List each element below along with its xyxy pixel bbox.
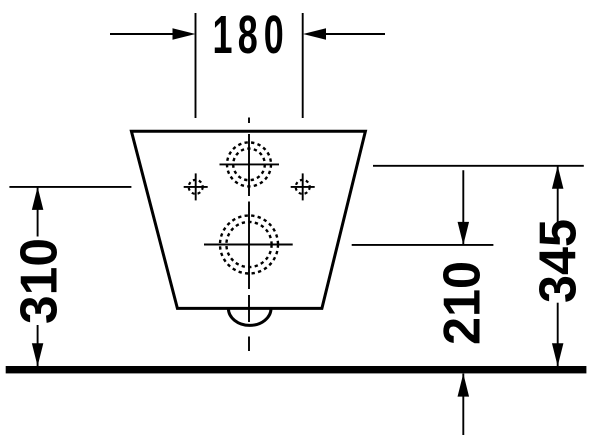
dim 210: lower leader line: [462, 374, 464, 435]
right mounting hole: [291, 173, 315, 200]
svg-text:310: 310: [11, 238, 69, 324]
dim 310: top arrowhead: [32, 187, 43, 210]
dim 210: down arrowhead: [458, 222, 470, 245]
dim 180: right leader line: [320, 33, 385, 35]
floor line: [6, 366, 587, 373]
svg-text:8: 8: [238, 6, 258, 65]
dim 310: dimension line lower segment: [37, 325, 39, 366]
dim 310: extension line: [9, 186, 131, 188]
dim 345: bottom arrowhead: [552, 343, 564, 366]
fixture body outline (trapezoid): [131, 131, 365, 308]
svg-text:210: 210: [434, 261, 492, 345]
dim 310: bottom arrowhead: [32, 343, 43, 366]
dim 345: top arrowhead: [552, 166, 564, 189]
upper hole dashed circles: [227, 142, 271, 186]
svg-text:345: 345: [530, 219, 588, 303]
left mounting hole: [184, 173, 208, 200]
dim 210: up arrowhead: [458, 374, 470, 397]
lower hole crosshair: [204, 244, 293, 246]
dim 180: right arrowhead: [303, 28, 326, 40]
dim 345: extension line: [373, 165, 584, 167]
dim 210: upper leader line: [462, 170, 464, 245]
vertical centerline: [248, 118, 250, 352]
dim 180: left arrowhead: [173, 28, 196, 40]
dim 310: dimension line upper segment: [37, 187, 39, 237]
dim 180: right extension line: [302, 13, 304, 118]
svg-text:0: 0: [264, 6, 284, 65]
dim 210: extension line: [352, 244, 494, 246]
svg-text:1: 1: [213, 6, 233, 65]
dim 180: left leader line: [110, 33, 178, 35]
dim 345: dimension line upper segment: [557, 166, 559, 229]
dim 345: dimension line lower segment: [557, 303, 559, 367]
upper hole crosshair: [220, 163, 280, 165]
outlet bump arc: [228, 308, 271, 325]
lower hole dashed circles: [220, 216, 278, 274]
dim 180: left extension line: [195, 13, 197, 118]
